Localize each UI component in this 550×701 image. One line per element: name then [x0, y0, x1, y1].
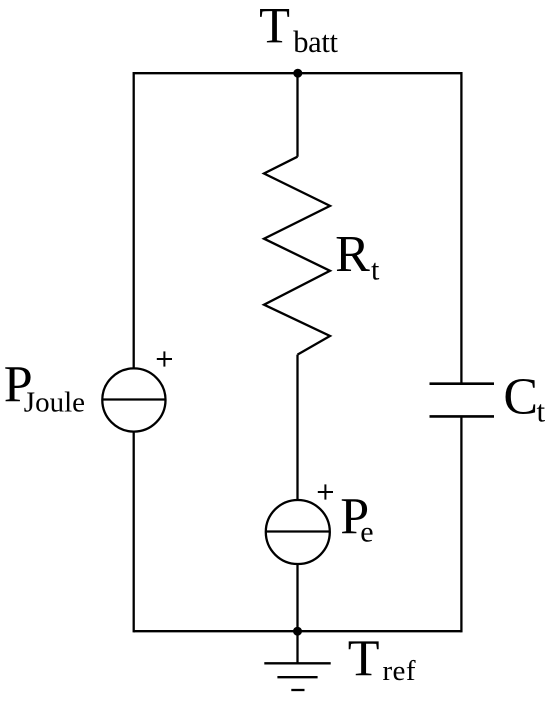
wire middle between resistor and P_e	[296, 355, 298, 500]
label P_e	[340, 488, 373, 548]
label R_t	[335, 226, 380, 286]
label T_ref	[348, 631, 416, 688]
svg-text:T: T	[259, 0, 290, 53]
svg-text:Joule: Joule	[24, 386, 85, 418]
label C_t	[503, 368, 545, 428]
wire left lower segment	[133, 432, 135, 632]
plus sign of P_Joule	[157, 351, 172, 366]
svg-text:C: C	[503, 368, 538, 425]
current source P_Joule bar	[102, 398, 166, 400]
label P_Joule	[4, 357, 85, 419]
wire bottom rail	[134, 630, 462, 632]
current source P_e circle	[266, 500, 330, 564]
node T_ref junction dot	[293, 627, 302, 636]
current source P_Joule circle	[102, 368, 165, 431]
wire right upper segment	[460, 72, 462, 384]
svg-text:batt: batt	[293, 25, 338, 59]
label T_batt	[259, 0, 338, 59]
node T_batt junction dot	[293, 69, 302, 78]
svg-text:t: t	[537, 393, 546, 428]
svg-text:ref: ref	[383, 655, 416, 687]
resistor R_t zigzag	[264, 157, 330, 355]
wire top rail	[134, 72, 462, 74]
wire middle below P_e	[296, 565, 298, 633]
svg-text:e: e	[360, 515, 373, 548]
wire ground stem	[296, 631, 298, 663]
svg-text:T: T	[348, 631, 380, 688]
wire right lower segment	[460, 416, 462, 632]
svg-text:t: t	[371, 254, 380, 287]
ground symbol	[264, 663, 330, 690]
current source P_e bar	[266, 530, 330, 532]
plus sign of P_e	[318, 484, 333, 499]
wire left upper segment	[133, 72, 135, 368]
capacitor C_t plates	[430, 384, 495, 417]
wire middle top from T_batt node to resistor	[296, 73, 298, 157]
svg-text:R: R	[335, 226, 370, 283]
